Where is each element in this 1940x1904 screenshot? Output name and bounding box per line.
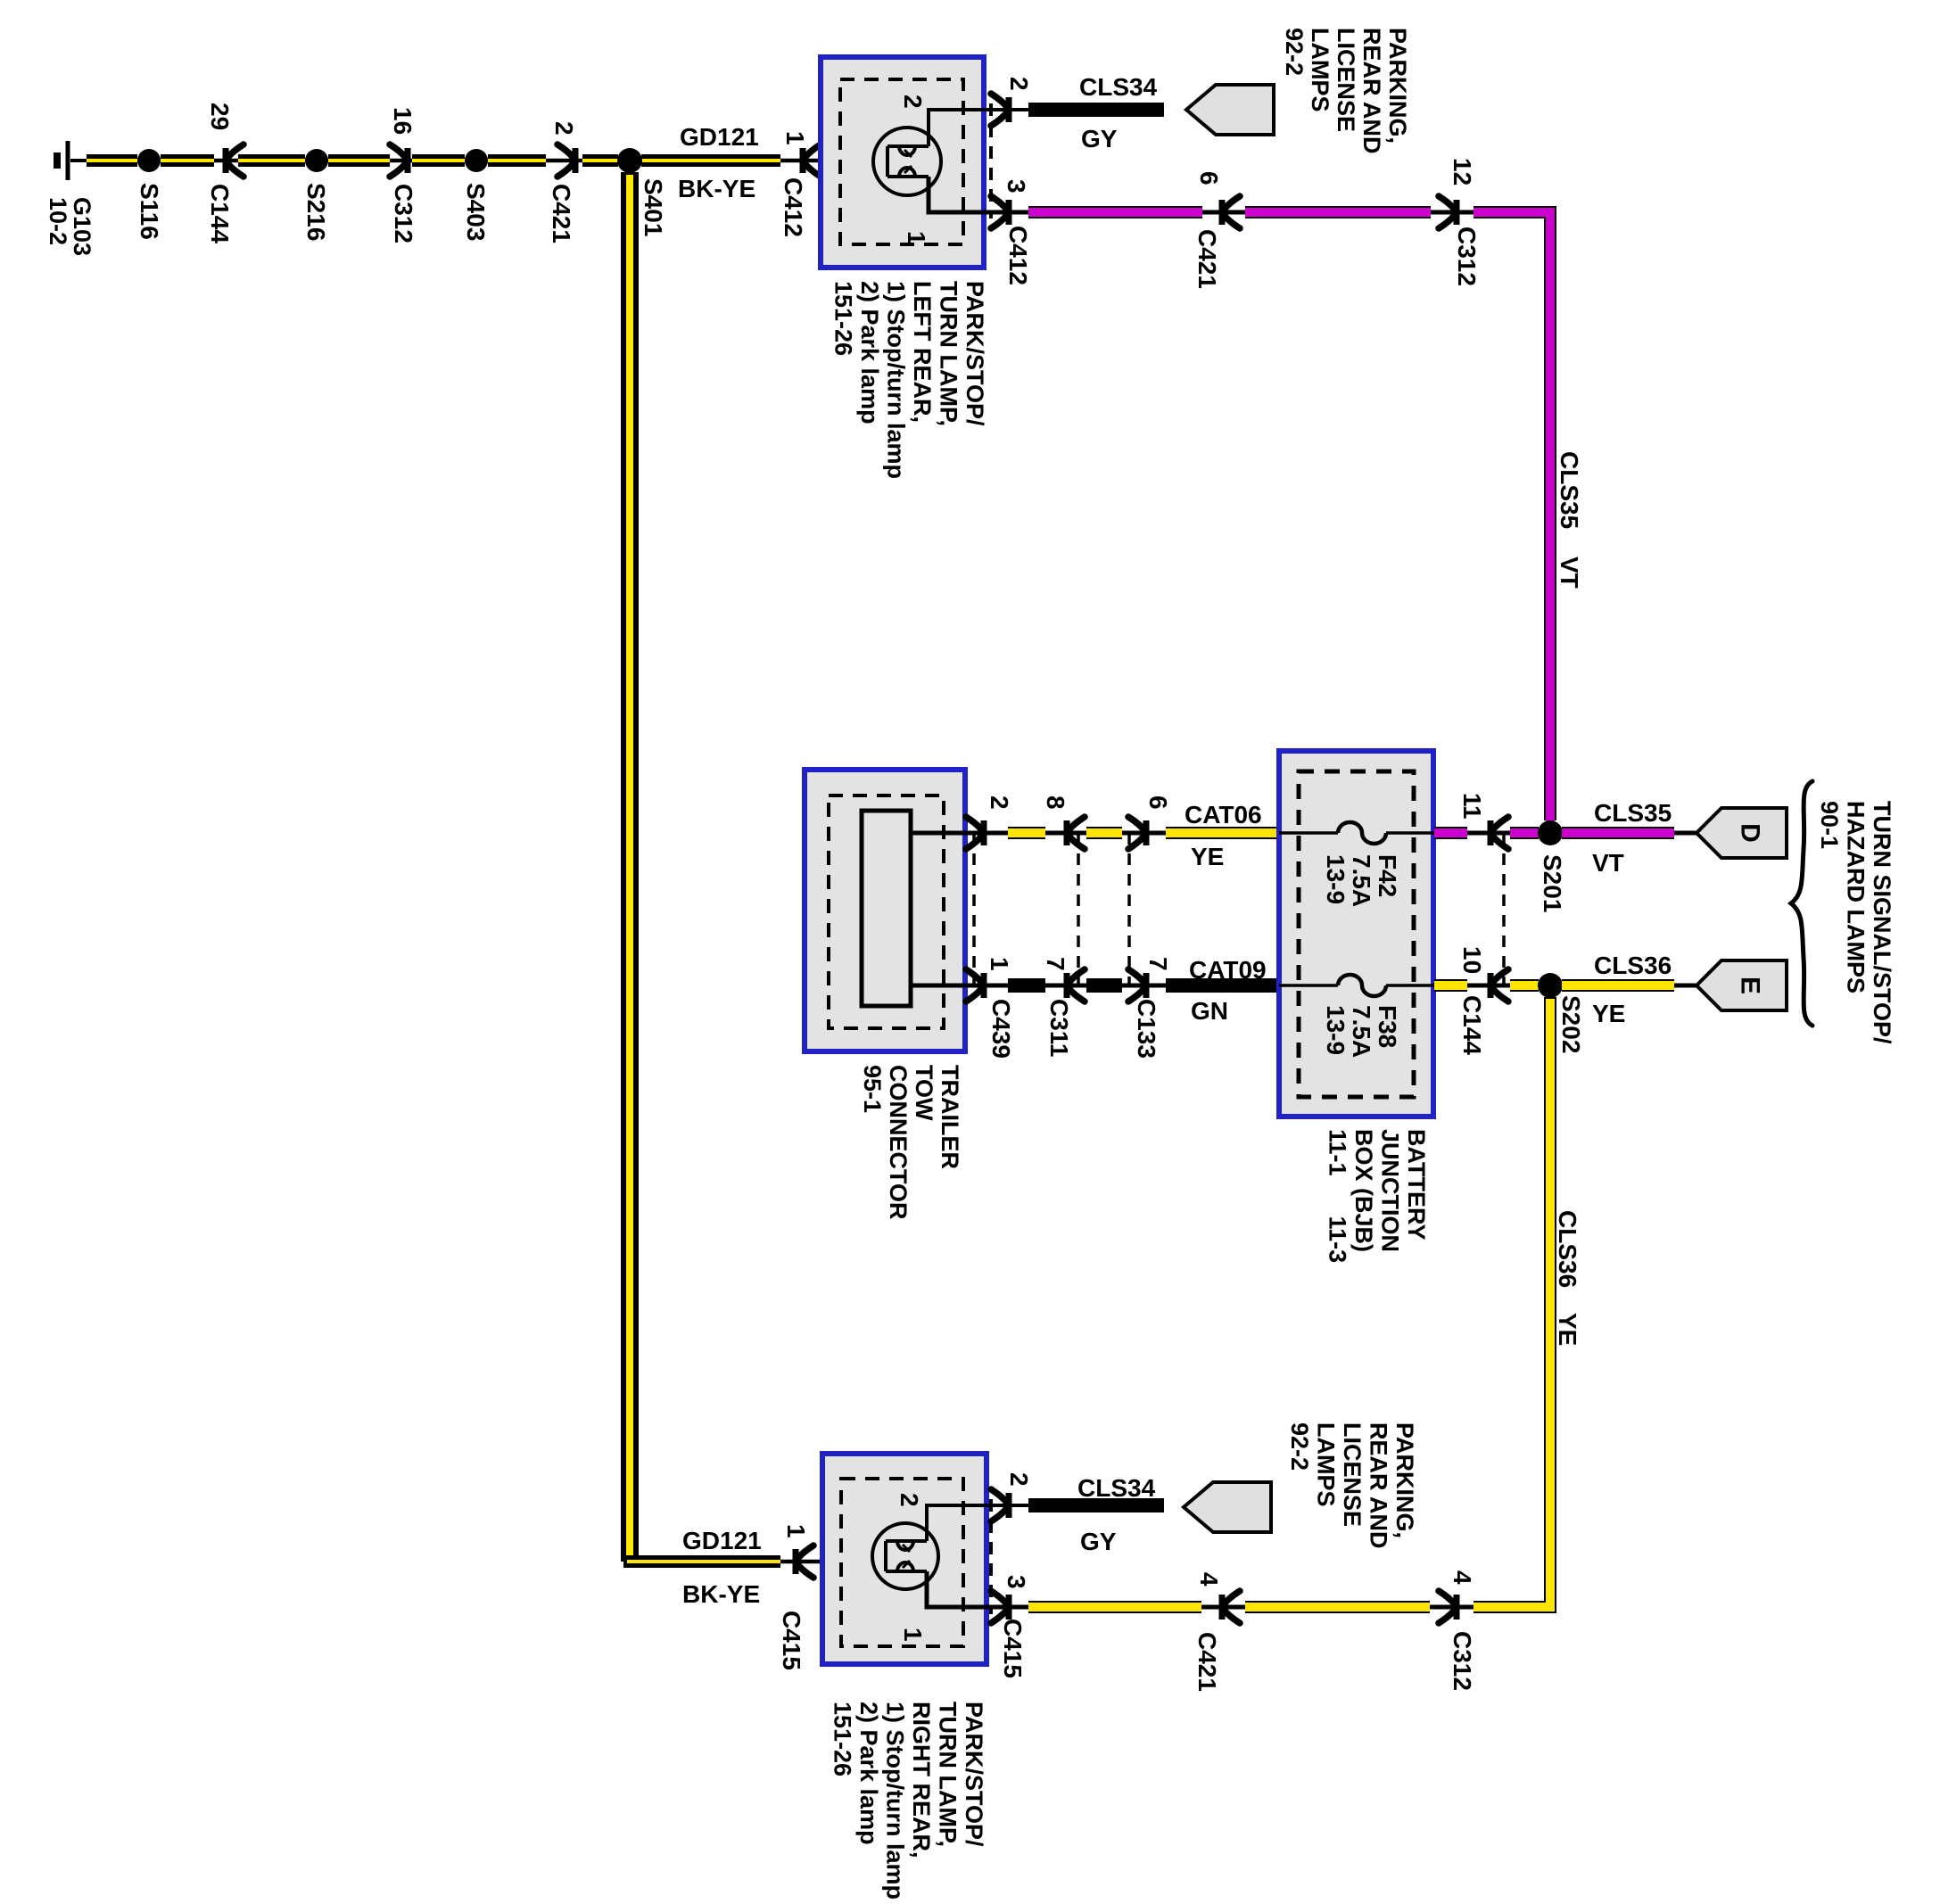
wire bulb pin2 to connector C412 pin 2 (929, 110, 1164, 146)
svg-text:2: 2 (550, 121, 578, 136)
svg-text:C415: C415 (999, 1619, 1027, 1678)
wire trailer pin1 to BJB (CAT09 path base line) (911, 984, 1279, 988)
wire CLS36 YE band BJB pin 10 (1434, 979, 1467, 992)
connector C311 dashed boundary (1077, 833, 1080, 985)
connector C439 pin 1 arrow (966, 969, 984, 1001)
connector C421 arrow (chain) (557, 144, 575, 177)
connector C415 pin 3 arrow (991, 1591, 1009, 1623)
svg-text:C412: C412 (780, 177, 807, 237)
wire CLS35 VT horizontal (top) (1028, 212, 1550, 823)
svg-text:3: 3 (1003, 179, 1030, 194)
svg-text:CLS36: CLS36 (1554, 1210, 1581, 1288)
svg-text:S403: S403 (462, 183, 490, 241)
svg-text:4: 4 (1195, 1572, 1223, 1587)
connector C412 pin 2 arrow (991, 94, 1009, 126)
svg-text:S401: S401 (640, 178, 667, 236)
wire CLS36 YE band S202 to connector E (1562, 979, 1674, 992)
svg-text:7: 7 (1042, 957, 1069, 971)
splice S401 (617, 148, 642, 173)
connector C144 pin 10 arrow (1490, 969, 1508, 1001)
wire CLS34 GY (bottom) (1028, 1498, 1164, 1512)
svg-text:2: 2 (1005, 1472, 1033, 1487)
wire CAT09 GN band (1166, 978, 1278, 993)
svg-text:8: 8 (1042, 795, 1069, 810)
svg-text:1: 1 (899, 1628, 927, 1642)
svg-text:1: 1 (781, 131, 809, 145)
svg-text:2: 2 (1005, 77, 1033, 91)
wire trailer pin2 to BJB (CAT06 path base line) (911, 831, 1279, 836)
fuse F38 (1279, 975, 1433, 996)
lamp assembly box PARK/STOP/TURN LAMP RIGHT REAR (822, 1454, 987, 1664)
svg-text:2: 2 (899, 95, 927, 109)
svg-text:GD121: GD121 (682, 1527, 762, 1554)
svg-text:E: E (1736, 977, 1765, 994)
svg-text:S202: S202 (1557, 995, 1585, 1053)
bulb lamp left rear (873, 128, 941, 195)
svg-text:12: 12 (1449, 158, 1476, 185)
splice S216 (305, 149, 328, 172)
svg-text:11: 11 (1458, 793, 1486, 820)
splice S201 (1538, 820, 1563, 845)
splice S403 (465, 149, 488, 172)
svg-text:C312: C312 (390, 184, 417, 243)
svg-text:1: 1 (903, 231, 930, 245)
svg-text:C421: C421 (548, 184, 575, 243)
svg-text:CLS35: CLS35 (1556, 451, 1583, 529)
lamp assembly box PARK/STOP/TURN LAMP LEFT REAR (821, 57, 984, 268)
svg-text:2: 2 (896, 1493, 923, 1507)
svg-text:CLS35: CLS35 (1594, 799, 1672, 827)
svg-text:CLS34: CLS34 (1079, 73, 1158, 101)
wire CAT06 YE band (1166, 827, 1278, 839)
connector D pentagon (1696, 808, 1787, 858)
wire CLS34 GY (top) (1028, 103, 1164, 117)
connector pentagon PARKING REAR AND LICENSE LAMPS (bottom) (1184, 1482, 1271, 1532)
connector C312 arrow (bottom YE) (1439, 1591, 1457, 1623)
svg-text:1: 1 (782, 1524, 810, 1538)
connector C421 arrow (bottom YE) (1222, 1591, 1240, 1623)
connector C415 arrow (left pin) (796, 1545, 813, 1578)
wire black segment C311-C133 (bottom) (1086, 978, 1122, 993)
connector E pentagon (1696, 960, 1787, 1010)
wire CLS35 VT band S201 to connector D (1562, 827, 1674, 839)
svg-text:C312: C312 (1449, 1631, 1476, 1691)
svg-text:3: 3 (1003, 1575, 1030, 1589)
svg-text:C412: C412 (1004, 226, 1032, 285)
connector C144 dashed boundary (mid) (1502, 833, 1506, 985)
svg-text:S216: S216 (302, 183, 330, 241)
connector C439 dashed boundary (972, 833, 976, 985)
svg-text:16: 16 (389, 107, 417, 135)
svg-text:YE: YE (1554, 1313, 1581, 1346)
connector C421 arrow (top VT) (1222, 196, 1240, 228)
svg-text:6: 6 (1144, 795, 1172, 810)
svg-text:GY: GY (1081, 125, 1118, 152)
svg-text:29: 29 (206, 103, 234, 130)
connector C133 pin 6 arrow (1128, 817, 1146, 849)
connector C312 arrow (chain) (390, 144, 408, 177)
svg-text:C421: C421 (1193, 229, 1221, 289)
svg-text:C133: C133 (1133, 999, 1160, 1059)
svg-text:BK-YE: BK-YE (678, 175, 755, 202)
svg-text:7: 7 (1144, 957, 1172, 971)
wire yellow segment C311-C133 (top) (1086, 827, 1122, 839)
svg-text:CAT06: CAT06 (1185, 801, 1262, 828)
svg-text:S201: S201 (1539, 854, 1566, 912)
wire bulb right pin2 to C415 pin 2 (927, 1505, 1164, 1541)
svg-text:C311: C311 (1045, 999, 1073, 1057)
connector C133 pin 7 arrow (1128, 969, 1146, 1001)
trailer tow connector box (805, 770, 965, 1051)
fuse F42 (1279, 822, 1433, 844)
svg-text:VT: VT (1556, 556, 1583, 589)
svg-text:D: D (1736, 823, 1765, 843)
ground G103 (57, 141, 87, 180)
svg-text:6: 6 (1195, 171, 1223, 185)
svg-text:C144: C144 (1458, 995, 1486, 1055)
wire black segment C439-C311 (bottom) (1008, 978, 1045, 993)
connector C415 pin 2 arrow (991, 1489, 1009, 1521)
connector C144 arrow (226, 144, 244, 177)
wire CLS36 YE horizontal (bottom) (1028, 997, 1550, 1607)
svg-text:C415: C415 (778, 1611, 805, 1670)
svg-text:10: 10 (1458, 946, 1486, 974)
svg-text:2: 2 (986, 795, 1013, 810)
svg-text:GN: GN (1191, 997, 1228, 1025)
connector C412 pin 3 arrow (991, 196, 1009, 228)
splice S202 (1538, 973, 1563, 998)
wire CLS35 VT band BJB pin 11 (1434, 827, 1467, 839)
svg-text:1: 1 (986, 957, 1013, 971)
connector C312 arrow (top VT) (1439, 196, 1457, 228)
wire BK-YE vertical S401 to right rear lamp (623, 172, 887, 1563)
wire BJB pin11 to S201 base line (1433, 831, 1696, 836)
svg-text:BK-YE: BK-YE (682, 1580, 760, 1608)
wire CLS35 VT band before S201 (1510, 827, 1539, 839)
svg-text:C312: C312 (1453, 227, 1481, 286)
connector C311 pin 7 arrow (1067, 969, 1085, 1001)
svg-text:GD121: GD121 (680, 123, 759, 151)
svg-text:CAT09: CAT09 (1189, 956, 1267, 984)
svg-text:C144: C144 (206, 184, 234, 243)
connector C415 dashed boundary (989, 1499, 993, 1614)
svg-text:GY: GY (1080, 1528, 1117, 1555)
connector C311 pin 8 arrow (1067, 817, 1085, 849)
wire BJB pin10 to S202 base line (1433, 984, 1696, 988)
connector C412 arrow (left pin) (803, 144, 821, 177)
splice S116 (137, 149, 161, 172)
svg-text:CLS36: CLS36 (1594, 952, 1672, 979)
svg-text:S116: S116 (136, 183, 163, 240)
battery junction box BJB (1279, 751, 1433, 1117)
connector C133 dashed boundary (1127, 833, 1131, 985)
svg-text:4: 4 (1449, 1570, 1476, 1585)
svg-text:VT: VT (1592, 849, 1624, 877)
svg-text:CLS34: CLS34 (1077, 1474, 1156, 1502)
wire bulb right pin1 to C415 pin 3 (927, 1571, 1550, 1607)
svg-text:YE: YE (1191, 843, 1224, 870)
connector C439 pin 2 arrow (966, 817, 984, 849)
connector pentagon PARKING REAR AND LICENSE LAMPS (top) (1186, 85, 1274, 135)
connector C144 pin 11 arrow (1490, 817, 1508, 849)
bulb lamp right rear (872, 1523, 938, 1589)
wire GD121 BK-YE ground chain (87, 159, 887, 163)
svg-text:C439: C439 (987, 999, 1015, 1059)
svg-text:C421: C421 (1193, 1632, 1221, 1692)
svg-text:YE: YE (1592, 1000, 1625, 1027)
wire CLS36 YE band before S202 (1510, 979, 1539, 992)
brace turn signal circuits (1791, 781, 1812, 1026)
wire yellow segment C439-C311 (top) (1008, 827, 1045, 839)
wire bulb pin1 to connector C412 pin 3 (929, 177, 1550, 212)
connector C412 dashed boundary (989, 103, 993, 218)
